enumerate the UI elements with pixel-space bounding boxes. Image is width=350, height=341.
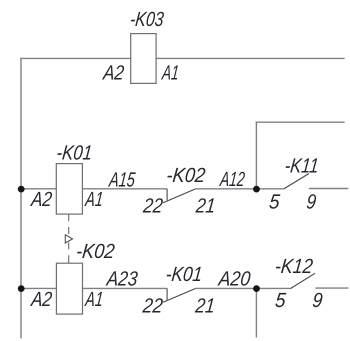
junction node on bus at bottom row [18,285,25,292]
svg-text:A2: A2 [101,62,126,85]
wire: bottom vertical below node A20 [255,288,257,337]
wire: top horizontal, right of K03 coil [156,57,345,59]
svg-text:A1: A1 [160,62,180,85]
wire: vertical stub from middle node up [255,122,257,190]
svg-text:-K12: -K12 [274,255,315,278]
svg-text:A23: A23 [104,268,139,291]
junction node on bus at middle row [18,186,25,193]
svg-text:-K01: -K01 [55,141,93,164]
wire: left vertical bus [20,58,22,339]
relay coil K01 [56,164,82,215]
svg-text:-K03: -K03 [129,8,165,31]
svg-text:-K02: -K02 [165,164,207,187]
wire: middle row, K01 coil to K02 contact [82,188,167,190]
svg-text:-K01: -K01 [165,263,204,286]
contact K11 (NO, pins 5-9) mover [284,174,309,190]
contact K01 (NC, pins 22-21) fixed tick [166,288,168,300]
wire: second horizontal at right top (to K11 branch) [256,121,345,123]
contact K02 (NC, pins 22-21) fixed tick [166,189,168,201]
wire: middle row, right of K11 contact [309,188,349,190]
relay coil K02 [56,263,82,314]
contact K12 (NO, pins 5-9) mover [290,273,315,288]
svg-text:22: 22 [141,294,165,317]
svg-text:22: 22 [141,194,164,217]
junction node A20 [253,285,260,292]
junction node A12 [253,186,260,193]
svg-text:A12: A12 [218,168,247,191]
svg-text:A2: A2 [29,188,54,211]
wire: bottom row, K02 coil to K01 contact [83,287,168,289]
mechanical link (dashed) between K01 and K02 [68,214,70,263]
svg-text:-K11: -K11 [284,154,320,177]
contact K01 (NC) mover [163,289,195,303]
wire: top horizontal, left of K03 coil [20,57,130,59]
wire: middle row, node to K11 contact [256,188,283,190]
wire: bottom row, right of K12 contact [315,287,348,289]
svg-text:A1: A1 [83,188,104,211]
wire: middle row, K02 contact to node A12 [195,188,256,190]
svg-text:21: 21 [194,194,217,217]
mechanical latch triangle [65,235,72,243]
wire: bottom row, K01 contact to node A20 [195,287,256,289]
relay coil K03 [131,34,156,84]
svg-text:21: 21 [194,294,217,317]
svg-text:A20: A20 [216,268,252,291]
wire: bottom row, bus to K02 coil [21,287,56,289]
svg-text:A2: A2 [29,288,54,311]
wire: middle row, bus to K01 coil [21,188,56,190]
svg-text:A1: A1 [83,288,104,311]
wire: bottom row, node to K12 contact [256,287,290,289]
svg-text:A15: A15 [107,169,137,192]
svg-text:-K02: -K02 [75,240,116,263]
contact K02 (NC) mover [163,189,195,203]
